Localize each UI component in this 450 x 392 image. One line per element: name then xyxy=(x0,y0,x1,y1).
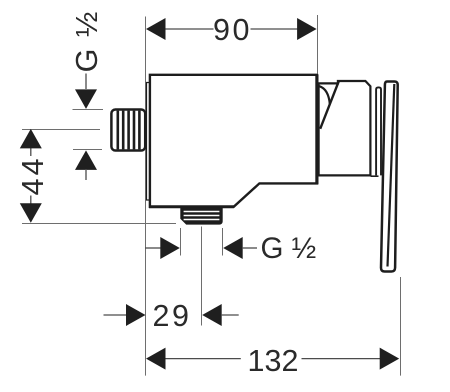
svg-text:132: 132 xyxy=(248,344,299,378)
132 dimension line xyxy=(165,358,380,360)
svg-text:44: 44 xyxy=(16,156,50,196)
lever inner line xyxy=(388,84,395,267)
body right edge (thick) xyxy=(315,74,318,184)
inlet top tick xyxy=(73,109,104,111)
90 right arrow xyxy=(297,18,317,40)
outlet left extension line xyxy=(180,228,182,256)
lever base diagonal xyxy=(320,81,339,128)
svg-text:29: 29 xyxy=(153,299,192,333)
inlet union nut (knurled) xyxy=(111,110,145,151)
G 1/2 top down arrow xyxy=(75,89,97,109)
44 down arrow xyxy=(20,203,42,223)
outlet thread grooves (white lines) xyxy=(184,212,220,220)
G 1/2 top dimension stub upper xyxy=(85,74,87,90)
inlet bottom tick xyxy=(73,149,102,151)
44 top extension line (inlet axis) xyxy=(22,129,100,131)
valve body xyxy=(150,75,317,207)
wall reference extension line xyxy=(145,17,147,376)
strip bottom connector xyxy=(371,175,379,177)
29 dim right stub xyxy=(221,314,239,316)
svg-text:G ½: G ½ xyxy=(70,10,104,72)
lever right extension line xyxy=(400,277,402,376)
44 up arrow xyxy=(20,129,42,149)
outlet G 1/2 dim left stub xyxy=(145,247,161,249)
outlet centerline extension xyxy=(201,227,203,326)
inlet knurl lines xyxy=(118,111,140,150)
132 right arrow xyxy=(380,348,400,370)
extension line right of 90 dim xyxy=(317,15,319,74)
lever handle bar xyxy=(381,82,398,272)
29 left-pointing arrow xyxy=(202,304,222,326)
body left face thin strip xyxy=(147,83,151,201)
outlet nipple (threaded, black) xyxy=(180,208,222,225)
body bottom edge (thick) xyxy=(149,205,234,208)
90 left arrow xyxy=(146,18,166,40)
G 1/2 top up arrow xyxy=(75,150,97,170)
44 dimension line lower xyxy=(30,196,32,205)
svg-text:G ½: G ½ xyxy=(261,232,317,265)
cartridge housing xyxy=(319,81,371,175)
outlet G 1/2 right stub xyxy=(242,247,257,249)
G 1/2 top dimension stub lower xyxy=(85,169,87,180)
outlet G 1/2 left-pointing arrow xyxy=(223,237,243,259)
44 dimension line upper xyxy=(30,148,32,157)
90 dimension line xyxy=(165,28,299,30)
svg-text:90: 90 xyxy=(213,13,252,47)
escutcheon strip xyxy=(376,87,381,175)
lever base curve xyxy=(319,86,330,104)
outlet right extension line xyxy=(222,228,224,256)
44 bottom extension line (outlet face) xyxy=(22,223,176,225)
29 dim left stub xyxy=(104,314,128,316)
29 right-pointing arrow xyxy=(126,304,146,326)
132 left arrow xyxy=(146,348,166,370)
outlet G 1/2 right-pointing arrow xyxy=(160,237,180,259)
